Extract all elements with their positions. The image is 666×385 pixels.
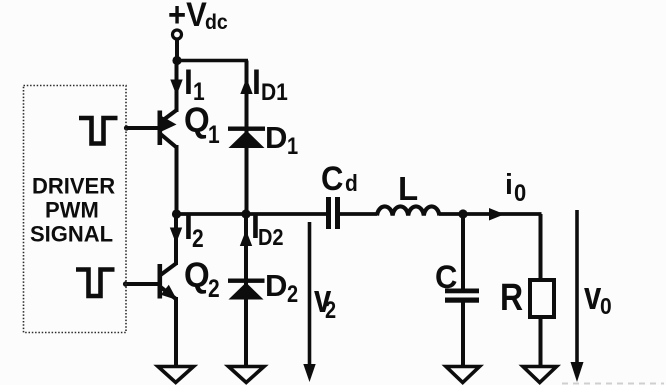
svg-text:I: I [252, 64, 261, 103]
svg-text:2: 2 [287, 280, 298, 307]
svg-text:C: C [435, 258, 457, 295]
svg-text:D: D [265, 268, 287, 303]
svg-text:R: R [500, 277, 523, 319]
svg-text:i: i [505, 169, 513, 201]
svg-text:1: 1 [208, 120, 220, 148]
svg-text:2: 2 [208, 274, 220, 302]
svg-text:PWM: PWM [45, 198, 99, 223]
svg-text:d: d [345, 170, 358, 196]
svg-text:2: 2 [192, 224, 204, 252]
svg-text:0: 0 [600, 293, 612, 319]
svg-text:+V: +V [168, 0, 207, 33]
svg-text:L: L [398, 170, 418, 207]
svg-text:1: 1 [287, 132, 298, 159]
svg-text:D: D [265, 120, 287, 155]
svg-text:DRIVER: DRIVER [32, 174, 115, 199]
svg-text:2: 2 [325, 296, 336, 323]
svg-text:D2: D2 [258, 224, 284, 251]
svg-text:SIGNAL: SIGNAL [30, 222, 113, 247]
svg-text:Q: Q [184, 256, 210, 295]
svg-text:0: 0 [514, 179, 526, 206]
svg-text:I: I [184, 64, 193, 103]
svg-text:dc: dc [205, 10, 228, 34]
svg-text:D1: D1 [261, 79, 288, 106]
svg-text:Q: Q [184, 101, 210, 140]
svg-text:C: C [321, 160, 343, 198]
svg-text:v: v [584, 272, 601, 318]
